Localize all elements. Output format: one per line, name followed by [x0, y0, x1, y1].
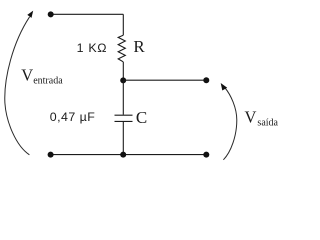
node: bottom-left input terminal: [48, 152, 54, 158]
resistor R zigzag: [118, 35, 125, 62]
wire: vertical from top wire to resistor top: [122, 14, 124, 35]
node: bottom-right output terminal: [203, 152, 209, 158]
wire: bottom horizontal rail: [51, 154, 207, 156]
node: middle junction (resistor/capacitor): [120, 77, 126, 83]
annotation arc: output voltage sweep (right): [223, 88, 236, 160]
wire: resistor bottom to middle junction: [122, 62, 124, 81]
node: output top terminal: [203, 77, 209, 83]
node: bottom middle junction: [120, 152, 126, 158]
capacitor C bottom plate: [115, 120, 133, 122]
arrowhead: right arc tip (up-left): [221, 83, 228, 91]
svg-text:C: C: [136, 108, 147, 127]
wire: middle horizontal to output node: [123, 79, 206, 81]
svg-text:R: R: [133, 37, 145, 56]
svg-text:1 KΩ: 1 KΩ: [77, 41, 108, 55]
wire: top horizontal from input node to resistor branch: [51, 13, 124, 15]
annotation arc: input voltage sweep (left): [5, 17, 30, 155]
wire: capacitor bottom plate down to bottom wire: [122, 121, 124, 154]
wire: junction down to capacitor top plate: [122, 80, 124, 114]
svg-text:0,47 µF: 0,47 µF: [50, 110, 95, 124]
node: top-left input terminal: [48, 11, 54, 17]
capacitor C top plate: [115, 114, 133, 116]
arrowhead: left arc tip (up-right): [27, 11, 33, 18]
